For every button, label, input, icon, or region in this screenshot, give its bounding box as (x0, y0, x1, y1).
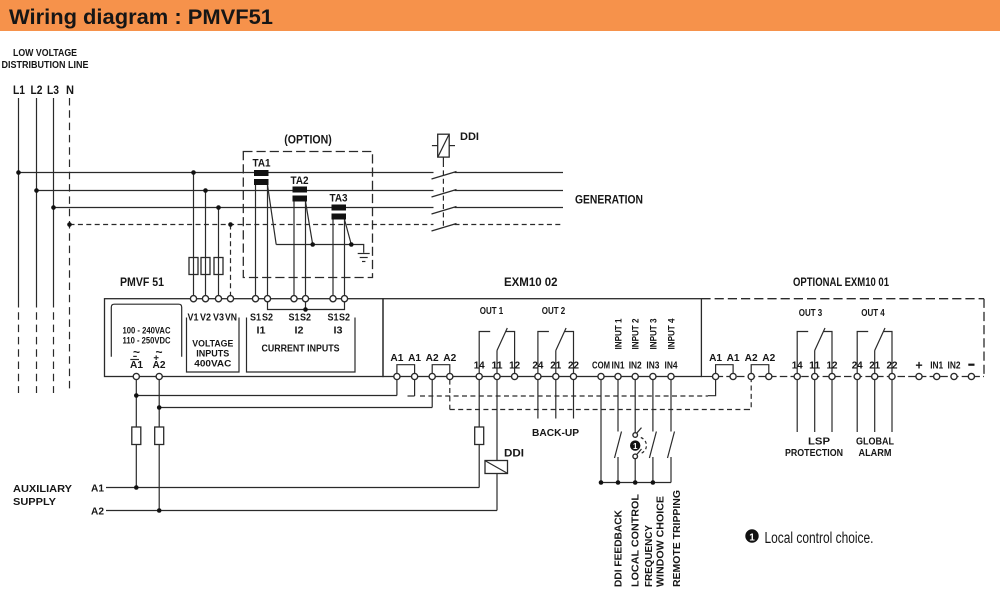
fuse F1 (189, 258, 198, 275)
option dashed box (243, 152, 372, 278)
svg-text:VN: VN (225, 313, 237, 324)
terminal A2 pmvf (156, 373, 162, 379)
svg-text:(OPTION): (OPTION) (284, 135, 332, 147)
switch IN2 local control (634, 380, 636, 433)
wire TA1 S2 (267, 185, 269, 296)
terminal A1 opt (713, 373, 719, 379)
terminal COM (598, 373, 604, 379)
terminal plus (916, 373, 922, 379)
svg-text:OUT 1: OUT 1 (480, 306, 504, 317)
power supply bracket (111, 304, 181, 357)
fuse out1 (475, 427, 484, 445)
wire A2 dashed extension to option module (449, 380, 451, 410)
footnote local control choice (745, 529, 758, 542)
wire 24 opt drop (856, 380, 858, 432)
svg-text:L3: L3 (47, 85, 59, 97)
OPT A1-A1 bridge (716, 365, 734, 374)
svg-text:A2: A2 (762, 353, 775, 364)
svg-text:22: 22 (887, 361, 898, 372)
wire L2 vertical (36, 98, 38, 300)
switch blade line D (432, 224, 457, 232)
svg-text:IN2: IN2 (629, 361, 642, 372)
terminal S2 I1 (264, 296, 270, 302)
terminal A1b exm (412, 373, 418, 379)
svg-text:INPUT 2: INPUT 2 (631, 319, 642, 350)
fuse aux A1 (132, 427, 141, 445)
terminal IN4 (668, 373, 674, 379)
svg-text:V2: V2 (200, 313, 211, 324)
svg-text:1: 1 (749, 533, 755, 544)
terminal 14 (476, 373, 482, 379)
terminal V1 (190, 296, 196, 302)
svg-text:IN3: IN3 (646, 361, 659, 372)
svg-text:12: 12 (827, 361, 838, 372)
svg-text:IN4: IN4 (665, 361, 678, 372)
svg-text:A2: A2 (91, 506, 104, 518)
switch IN1 (617, 380, 619, 432)
wire 11 opt drop (814, 380, 816, 432)
svg-text:PMVF 51: PMVF 51 (120, 277, 165, 289)
svg-text:A1: A1 (390, 353, 403, 364)
svg-text:S2: S2 (300, 313, 311, 324)
terminal A2b exm (447, 373, 453, 379)
svg-text:OUT 3: OUT 3 (799, 308, 823, 319)
svg-text:A1: A1 (408, 353, 421, 364)
svg-text:I2: I2 (295, 326, 304, 337)
junction A2 feed (157, 405, 162, 410)
svg-text:INPUT 4: INPUT 4 (667, 318, 678, 350)
svg-text:V1: V1 (188, 313, 199, 324)
svg-text:22: 22 (568, 361, 579, 372)
wire TA3 ground branch (345, 220, 352, 245)
junction S2 bus (303, 307, 308, 312)
svg-text:INPUT 3: INPUT 3 (648, 319, 659, 350)
svg-text:21: 21 (550, 361, 561, 372)
terminal S1 I2 (291, 296, 297, 302)
svg-text:A2: A2 (443, 353, 456, 364)
svg-text:DDI: DDI (504, 448, 524, 460)
wire phase line B (37, 190, 434, 192)
switch IN3 (652, 380, 654, 432)
junction L3/line C (51, 205, 56, 210)
wire phase line C (54, 207, 434, 209)
junction IN2 bus (633, 480, 638, 485)
fuse F3 (214, 258, 223, 275)
junction L1/line A (16, 170, 21, 175)
svg-text:AUXILIARY: AUXILIARY (13, 483, 72, 495)
svg-text:Local control choice.: Local control choice. (765, 530, 874, 547)
svg-text:OPTIONAL EXM10 01: OPTIONAL EXM10 01 (793, 277, 889, 289)
svg-text:SUPPLY: SUPPLY (13, 496, 56, 508)
svg-text:REMOTE TRIPPING: REMOTE TRIPPING (672, 490, 683, 587)
terminal 21 (553, 373, 559, 379)
svg-text:400VAC: 400VAC (194, 359, 231, 370)
wire L1 vertical (18, 98, 20, 300)
junction V1/line A (191, 170, 196, 175)
terminal IN1 (615, 373, 621, 379)
svg-text:S1: S1 (328, 313, 339, 324)
svg-text:S2: S2 (339, 313, 350, 324)
svg-text:CURRENT INPUTS: CURRENT INPUTS (262, 344, 340, 355)
switch IN4 (670, 380, 672, 432)
relay OUT1 contact (479, 332, 490, 374)
svg-text:OUT 2: OUT 2 (542, 306, 566, 317)
relay coil DDI (485, 461, 508, 474)
wire DDI linkage dashed (442, 157, 444, 162)
wire A1 pmvf drop (135, 380, 137, 427)
optional box dashed right (983, 299, 985, 377)
wire TA2 ground branch (306, 202, 313, 245)
svg-text:L1: L1 (13, 85, 26, 97)
wire S2 common bus (268, 302, 345, 310)
header banner (0, 0, 1000, 31)
fuse aux A2 (155, 427, 164, 445)
svg-text:L2: L2 (31, 85, 43, 97)
junction L2/line B (34, 188, 39, 193)
svg-text:A1: A1 (130, 359, 143, 371)
junction TA2 bus (310, 242, 315, 247)
svg-text:Wiring diagram : PMVF51: Wiring diagram : PMVF51 (9, 5, 273, 29)
terminal S1 I1 (252, 296, 258, 302)
terminal 24 (535, 373, 541, 379)
svg-text:A1: A1 (91, 483, 104, 495)
svg-text:N: N (66, 85, 74, 97)
wire 14 fuse drop (478, 380, 480, 427)
breaker DDI (438, 134, 450, 157)
junction N/line D (67, 222, 72, 227)
wire V2 drop (205, 191, 207, 297)
terminal S1 I3 (330, 296, 336, 302)
terminal V2 (202, 296, 208, 302)
wire VN drop dashed (230, 225, 232, 297)
svg-text:OUT 4: OUT 4 (861, 308, 885, 319)
terminal 22 opt (889, 373, 895, 379)
fuse F2 (201, 258, 210, 275)
wire TA3 S2 (344, 220, 346, 297)
wire A1 feed rail (136, 395, 397, 397)
svg-text:IN1: IN1 (930, 361, 943, 372)
terminal A2 opt (748, 373, 754, 379)
terminal 21 opt (872, 373, 878, 379)
terminal V3 (215, 296, 221, 302)
svg-text:A1: A1 (727, 353, 740, 364)
terminal 11 (494, 373, 500, 379)
current inputs box (247, 318, 356, 373)
ground symbol (358, 253, 370, 255)
switch blade line B (432, 190, 457, 198)
voltage inputs box (187, 318, 240, 373)
svg-text:S1: S1 (289, 313, 300, 324)
wire phase line A (19, 172, 434, 174)
svg-text:V3: V3 (213, 313, 224, 324)
junction VN/line D (228, 222, 233, 227)
svg-text:100 - 240VAC: 100 - 240VAC (123, 326, 171, 336)
svg-text:1: 1 (633, 442, 638, 451)
junction V3/line C (216, 205, 221, 210)
terminal 14 opt (794, 373, 800, 379)
wire TA1 S1 (255, 185, 257, 296)
EXM A1-A1 bridge (397, 365, 415, 374)
marker local control choice (630, 440, 640, 450)
terminal IN3 (650, 373, 656, 379)
relay OUT3 contact (797, 332, 808, 374)
svg-text:110 - 250VDC: 110 - 250VDC (123, 336, 171, 346)
svg-text:11: 11 (492, 361, 503, 372)
wire A1 supply rail (106, 487, 479, 489)
terminal A2 exm (429, 373, 435, 379)
junction COM bus (599, 480, 604, 485)
wire 11 coil drop (496, 380, 498, 461)
svg-text:24: 24 (852, 361, 863, 372)
terminal 12 opt (829, 373, 835, 379)
terminal IN2 opt (951, 373, 957, 379)
svg-text:DISTRIBUTION LINE: DISTRIBUTION LINE (2, 59, 89, 71)
wire 21 opt drop (874, 380, 876, 432)
svg-text:TA3: TA3 (330, 193, 348, 205)
svg-text:14: 14 (792, 361, 803, 372)
OPT A2-A2 bridge (751, 365, 769, 374)
junction A1 rail (134, 485, 139, 490)
svg-text:GENERATION: GENERATION (575, 195, 643, 207)
svg-text:TA1: TA1 (253, 158, 271, 170)
svg-text:21: 21 (869, 361, 880, 372)
terminal A1 exm (394, 373, 400, 379)
svg-text:DDI: DDI (460, 131, 479, 143)
terminal 11 opt (812, 373, 818, 379)
terminal 24 opt (854, 373, 860, 379)
svg-text:12: 12 (509, 361, 520, 372)
terminal A1 pmvf (133, 373, 139, 379)
wire A2 feed rail (159, 407, 432, 409)
terminal S2 I2 (302, 296, 308, 302)
svg-text:A2: A2 (153, 359, 166, 371)
junction A1 feed (134, 393, 139, 398)
wire TA1 ground branch (268, 185, 277, 245)
junction IN3 bus (651, 480, 656, 485)
terminal A1b opt (730, 373, 736, 379)
svg-text:LSP: LSP (808, 436, 830, 448)
terminal IN1 opt (934, 373, 940, 379)
switch blade line A (432, 172, 457, 180)
relay OUT2 contact (538, 332, 549, 374)
wire N vertical dashed (69, 98, 71, 393)
optional box dashed bottom terminal rail (701, 376, 715, 378)
wire 14 opt drop (796, 380, 798, 432)
svg-text:A1: A1 (709, 353, 722, 364)
wire 12 opt drop (831, 380, 833, 432)
svg-text:ALARM: ALARM (859, 447, 892, 459)
terminal minus (968, 373, 974, 379)
wire A2 pmvf drop (158, 380, 160, 427)
svg-text:14: 14 (474, 361, 485, 372)
svg-text:I1: I1 (257, 326, 266, 337)
wire TA3 S1 (332, 220, 334, 297)
relay OUT4 contact (857, 332, 868, 374)
svg-text:FREQUENCY: FREQUENCY (644, 525, 655, 587)
svg-text:24: 24 (532, 361, 543, 372)
wire 21 backup stub (555, 380, 557, 419)
svg-text:EXM10 02: EXM10 02 (504, 277, 558, 289)
terminal IN2 (632, 373, 638, 379)
svg-text:WINDOW CHOICE: WINDOW CHOICE (656, 496, 667, 587)
svg-text:INPUT 1: INPUT 1 (614, 318, 625, 350)
svg-text:TA2: TA2 (291, 175, 309, 187)
svg-text:A2: A2 (745, 353, 758, 364)
svg-text:COM: COM (592, 361, 610, 372)
wire TA2 S2 (305, 202, 307, 297)
svg-text:GLOBAL: GLOBAL (856, 436, 895, 448)
svg-text:DDI FEEDBACK: DDI FEEDBACK (614, 509, 625, 587)
wire input common bus (601, 482, 671, 484)
svg-text:PROTECTION: PROTECTION (785, 447, 843, 459)
wire COM drop (600, 380, 602, 483)
svg-text:IN1: IN1 (612, 361, 625, 372)
switch blade line C (432, 207, 457, 215)
svg-text:LOW VOLTAGE: LOW VOLTAGE (13, 47, 77, 59)
EXM A2-A2 bridge (432, 365, 450, 374)
svg-text:S1: S1 (250, 313, 261, 324)
terminal S2 I3 (341, 296, 347, 302)
junction IN1 bus (616, 480, 621, 485)
wire 22 backup stub (573, 380, 575, 419)
terminal 12 (511, 373, 517, 379)
svg-text:A2: A2 (426, 353, 439, 364)
wire V1 drop (193, 173, 195, 297)
wire neutral line D dashed (70, 224, 434, 226)
terminal VN (227, 296, 233, 302)
svg-text:IN2: IN2 (948, 361, 961, 372)
terminal A2b opt (766, 373, 772, 379)
svg-text:BACK-UP: BACK-UP (532, 427, 579, 439)
svg-text:+: + (915, 359, 922, 373)
wire 22 opt drop (891, 380, 893, 432)
junction A2 rail (157, 508, 162, 513)
pin label minus (968, 364, 974, 366)
wire 24 backup stub (537, 380, 539, 419)
wire CT ground bus (276, 245, 364, 253)
wire A2 supply rail (106, 510, 497, 512)
junction V2/line B (203, 188, 208, 193)
svg-text:I3: I3 (334, 326, 343, 337)
terminal 22 (570, 373, 576, 379)
wire TA2 S1 (293, 202, 295, 297)
svg-text:LOCAL CONTROL: LOCAL CONTROL (631, 494, 642, 587)
junction TA3 bus (349, 242, 354, 247)
optional box dashed top (701, 298, 984, 300)
svg-text:11: 11 (809, 361, 820, 372)
wire A1 dashed extension to option module (414, 380, 416, 396)
wire L3 vertical (53, 98, 55, 300)
wire V3 drop (218, 208, 220, 297)
svg-text:S2: S2 (262, 313, 273, 324)
